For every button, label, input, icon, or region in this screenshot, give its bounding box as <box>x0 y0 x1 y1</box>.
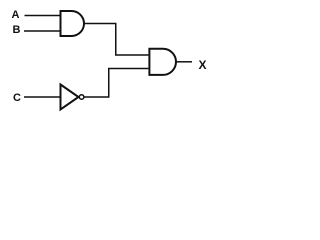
wire U3 output up to U2 bottom input <box>85 69 149 98</box>
svg-text:X: X <box>199 58 207 72</box>
wire U2 output <box>176 61 192 63</box>
svg-text:C: C <box>13 92 21 104</box>
wire U1 output down to U2 top input <box>84 24 148 56</box>
inverter U3 bubble <box>79 95 84 100</box>
and-gate U1 <box>61 11 84 36</box>
and-gate U2 <box>149 49 176 75</box>
wire A input <box>25 15 61 17</box>
inverter U3 <box>61 85 79 110</box>
wire B input <box>24 30 60 32</box>
wire C input <box>24 96 60 98</box>
svg-text:B: B <box>13 24 21 36</box>
svg-text:A: A <box>12 9 20 21</box>
